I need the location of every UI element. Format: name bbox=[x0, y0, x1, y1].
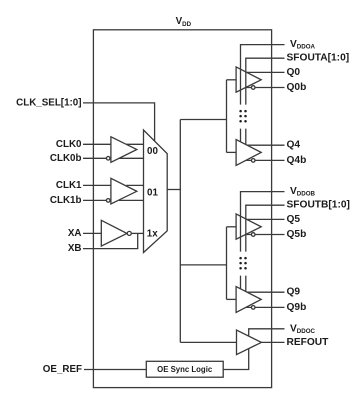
dots bank A bbox=[239, 110, 246, 123]
wire central bus bbox=[179, 120, 181, 343]
wire CLK1 bbox=[83, 184, 111, 186]
mux bbox=[144, 130, 168, 253]
svg-text:OE_REF: OE_REF bbox=[43, 364, 82, 375]
wire CLK0b bbox=[83, 157, 106, 159]
input buffer CLK1 bbox=[111, 178, 137, 204]
svg-text:SFOUTA[1:0]: SFOUTA[1:0] bbox=[287, 53, 350, 64]
wire REFOUT input bbox=[180, 341, 236, 343]
bubble XA inverter output bbox=[127, 231, 131, 235]
output buffer Q0 bbox=[236, 67, 261, 92]
wire OE sync to REFOUT buffer bbox=[223, 349, 249, 370]
wire REFOUT output bbox=[261, 341, 284, 343]
svg-text:Q0: Q0 bbox=[287, 67, 301, 78]
wire xtal inverter out to mux bbox=[132, 232, 144, 234]
wire buffer Q9 input bbox=[227, 298, 237, 300]
inverter XA bbox=[101, 220, 127, 246]
svg-text:Q5: Q5 bbox=[287, 214, 301, 225]
svg-text:Q4: Q4 bbox=[287, 140, 301, 151]
wire VDDOC bbox=[249, 329, 285, 336]
bubble Q0b bbox=[251, 86, 255, 90]
output buffer Q5 bbox=[236, 214, 261, 239]
wire buffer2 out comp to mux bbox=[119, 199, 144, 201]
svg-text:Q9: Q9 bbox=[287, 287, 301, 298]
wire Q5b output bbox=[246, 234, 285, 236]
wire rail SFOUTA bbox=[246, 58, 285, 144]
svg-text:XA: XA bbox=[68, 228, 82, 239]
svg-text:CLK0b: CLK0b bbox=[50, 153, 82, 164]
svg-text:1x: 1x bbox=[147, 228, 158, 239]
svg-text:Q0b: Q0b bbox=[287, 82, 307, 93]
svg-text:VDDOA: VDDOA bbox=[290, 39, 316, 50]
svg-text:SFOUTB[1:0]: SFOUTB[1:0] bbox=[287, 200, 350, 211]
wire branch bank A bbox=[180, 119, 226, 121]
wire Q0b output bbox=[246, 87, 285, 89]
svg-text:CLK_SEL[1:0]: CLK_SEL[1:0] bbox=[16, 97, 81, 108]
svg-text:01: 01 bbox=[147, 187, 158, 198]
output buffer Q4 bbox=[236, 140, 261, 166]
svg-text:Q9b: Q9b bbox=[287, 302, 307, 313]
wire Q4b output bbox=[246, 159, 285, 161]
wire buffer2 out true to mux bbox=[126, 184, 143, 186]
output buffer Q9 bbox=[236, 287, 261, 313]
OE Sync Logic box bbox=[146, 361, 223, 377]
wire rail SFOUTB bbox=[246, 205, 285, 291]
outer box bbox=[93, 30, 271, 388]
wire buffer Q5 input bbox=[227, 226, 237, 228]
wire OE_REF bbox=[84, 369, 146, 371]
wire mux output bbox=[167, 189, 180, 191]
wire bank B input vertical bbox=[226, 227, 228, 300]
wire buffer Q4 input bbox=[227, 151, 237, 153]
input buffer CLK0 bbox=[111, 137, 137, 163]
wire CLK_SEL[1:0] bbox=[83, 103, 155, 142]
svg-text:VDD: VDD bbox=[176, 16, 192, 28]
svg-text:VDDOB: VDDOB bbox=[290, 186, 316, 197]
svg-text:REFOUT: REFOUT bbox=[287, 337, 330, 348]
wire Q0 output bbox=[247, 71, 285, 73]
svg-text:CLK1b: CLK1b bbox=[50, 195, 82, 206]
svg-text:Q5b: Q5b bbox=[287, 229, 307, 240]
wire rail VDDOB bbox=[241, 192, 285, 289]
dots bank B bbox=[239, 257, 246, 270]
wire buffer Q0 input bbox=[227, 79, 237, 81]
svg-text:VDDOC: VDDOC bbox=[290, 323, 316, 334]
wire Q4 output bbox=[247, 144, 285, 146]
bubble CLK1b input bbox=[106, 199, 110, 203]
svg-text:CLK1: CLK1 bbox=[56, 180, 82, 191]
wire Q9 output bbox=[247, 291, 285, 293]
wire CLK0 bbox=[83, 143, 111, 145]
wire buffer1 out true to mux bbox=[126, 143, 143, 145]
bubble Q4b bbox=[251, 159, 255, 163]
svg-text:XB: XB bbox=[68, 243, 82, 254]
wire branch bank B bbox=[180, 264, 226, 266]
wire CLK1b bbox=[83, 199, 106, 201]
bubble Q9b bbox=[251, 306, 255, 310]
wire bank A input vertical bbox=[226, 80, 228, 153]
wire Q9b output bbox=[246, 306, 285, 308]
wire XA bbox=[83, 232, 101, 234]
wire rail VDDOA bbox=[241, 45, 285, 142]
wire Q5 output bbox=[247, 218, 285, 220]
svg-text:CLK0: CLK0 bbox=[56, 139, 82, 150]
wire buffer1 out comp to mux bbox=[119, 157, 144, 159]
svg-text:00: 00 bbox=[147, 146, 158, 157]
bubble Q5b bbox=[251, 233, 255, 237]
wire XB bbox=[83, 233, 138, 248]
bubble CLK0b input bbox=[106, 157, 110, 161]
svg-text:OE Sync Logic: OE Sync Logic bbox=[157, 365, 213, 374]
svg-text:Q4b: Q4b bbox=[287, 155, 307, 166]
output buffer REFOUT bbox=[237, 330, 262, 355]
